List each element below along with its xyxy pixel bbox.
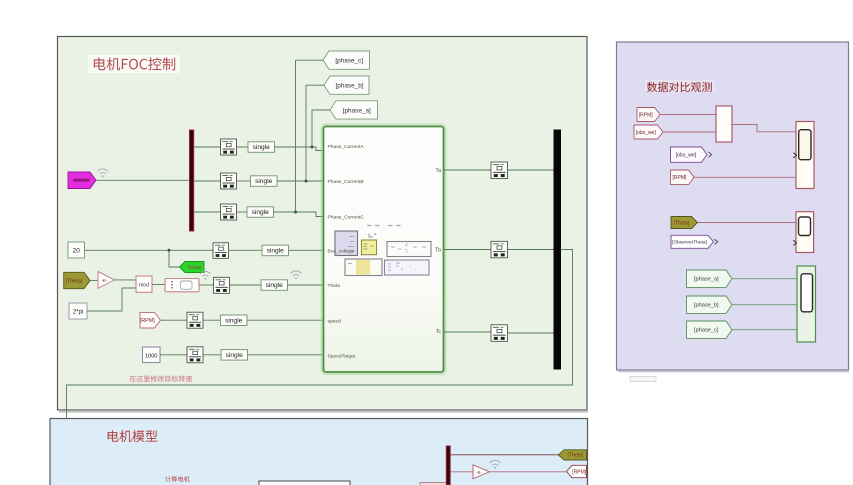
wire bus to conv A xyxy=(194,146,221,148)
annotation: 数据对比观测 title xyxy=(645,80,715,93)
svg-text:single: single xyxy=(253,144,271,151)
svg-text:[RPM]: [RPM] xyxy=(140,318,155,324)
data type conversion block speed xyxy=(187,312,203,328)
wire Tb to conv xyxy=(444,249,492,251)
wire phase_a to scope3 xyxy=(732,278,797,280)
motor block (cut off) xyxy=(259,481,350,485)
svg-text:[phase_b]: [phase_b] xyxy=(694,303,719,309)
constant block 20 xyxy=(68,242,85,258)
svg-text:[phase_c]: [phase_c] xyxy=(335,57,363,64)
wire single C to Phase_CurrentC port xyxy=(274,212,324,217)
block edge (cut off, pink) xyxy=(420,483,448,485)
From tag Theta (obs panel) xyxy=(671,217,698,229)
Norm data type conversion block xyxy=(213,243,229,258)
wire phase_a tag branch xyxy=(312,110,330,147)
svg-text:[RPM]: [RPM] xyxy=(639,112,654,118)
svg-text:[obs_we]: [obs_we] xyxy=(676,153,697,159)
Goto tag N-bus (green) xyxy=(180,262,205,273)
single block Bus_voltage xyxy=(262,245,289,256)
wire phase_b to scope3 xyxy=(732,304,797,306)
From tag Iabc (magenta) xyxy=(68,172,96,189)
scope1 input arrow xyxy=(793,153,796,158)
panel: 电机FOC控制 area xyxy=(58,37,588,411)
wire RPM to mux3 xyxy=(660,114,716,116)
gain block -K- xyxy=(98,272,115,289)
wire bus2 to gain2 xyxy=(450,471,473,473)
svg-text:SpeedTarget: SpeedTarget xyxy=(328,354,356,360)
data type conversion block Tb xyxy=(491,241,508,257)
svg-text:[RPM]: [RPM] xyxy=(572,469,587,475)
wire obs_we to mux3 xyxy=(663,131,716,133)
svg-text:[Theta]: [Theta] xyxy=(673,220,689,226)
Goto tag phase_b xyxy=(324,76,369,94)
svg-text:-K-: -K- xyxy=(476,470,482,475)
junction phase_c tap xyxy=(294,211,297,214)
wire Theta tag to gain xyxy=(90,280,98,282)
wire single to Theta port xyxy=(288,284,324,286)
junction N-bus tap xyxy=(168,249,171,252)
From tag RPM xyxy=(140,312,161,328)
data type conversion block SpeedTarget xyxy=(187,347,203,363)
wire bus to conv C xyxy=(194,211,221,213)
scope block 1 (speed) xyxy=(796,122,814,189)
wire conv Theta to single xyxy=(230,284,262,286)
From tag Theta (olive) xyxy=(64,272,90,288)
subsystem: FOC controller xyxy=(322,125,445,374)
wire phase_b tag branch xyxy=(306,85,324,181)
data type conversion block C xyxy=(221,204,237,220)
svg-text:Ta: Ta xyxy=(436,168,442,174)
svg-text:1000: 1000 xyxy=(145,353,157,359)
svg-text:Phase_CurrentC: Phase_CurrentC xyxy=(328,214,365,220)
data type conversion block A xyxy=(221,139,237,155)
wire 1000 to conv xyxy=(160,354,187,356)
wire single B to Phase_CurrentB port xyxy=(277,180,323,182)
svg-text:single: single xyxy=(226,352,244,359)
svg-text:Bus_voltage: Bus_voltage xyxy=(328,248,355,254)
svg-text:[Theta]: [Theta] xyxy=(568,453,584,459)
mux bus bar (black) xyxy=(554,130,562,370)
wire conv to single SpeedTarget xyxy=(203,354,221,356)
data type conversion block Theta xyxy=(214,277,230,293)
From tag phase_b (obs) xyxy=(687,296,733,313)
wire Ta to conv xyxy=(444,169,492,171)
svg-text:single: single xyxy=(252,209,270,216)
wire conv Ta to mux bus xyxy=(508,169,554,171)
wire single to speed port xyxy=(247,319,323,321)
panel: 数据对比观测 area xyxy=(617,42,849,370)
annotation box below panel xyxy=(630,377,656,382)
wire RPM2 to scope1 xyxy=(694,176,796,178)
svg-text:-K-: -K- xyxy=(101,278,108,283)
junction phase_b tap xyxy=(305,180,308,183)
wire gain to mod in1 xyxy=(115,279,137,281)
mod block xyxy=(136,276,152,292)
wire gain2 to RPM goto xyxy=(490,471,567,473)
single block C xyxy=(247,207,274,218)
wire RPM tag to conv xyxy=(161,319,188,321)
gain block -K- (bottom) xyxy=(473,465,490,479)
wire mux output to motor model xyxy=(67,250,573,485)
wire conv to single speed xyxy=(203,319,221,321)
svg-text:2*pi: 2*pi xyxy=(73,310,83,316)
svg-text:[obs_we]: [obs_we] xyxy=(636,130,657,136)
wire 2*pi to mod in2 xyxy=(87,288,136,311)
subsystem preview thumbnails xyxy=(335,225,431,276)
signal logging badge theta 1 xyxy=(200,271,211,279)
svg-text:Tb: Tb xyxy=(435,248,441,254)
From tag obs_we 2 xyxy=(671,147,708,162)
scope2 input arrow xyxy=(793,240,796,245)
svg-text:mod: mod xyxy=(139,283,149,289)
wire Iabc to demux bus xyxy=(96,179,190,181)
Goto tag RPM (bottom) xyxy=(567,465,587,477)
data type conversion block B xyxy=(221,173,237,189)
svg-text:[phase_a]: [phase_a] xyxy=(694,277,719,283)
wire conv Tc to mux bus xyxy=(508,332,554,334)
constant block 1000 xyxy=(143,347,161,363)
svg-text:Theta: Theta xyxy=(328,283,341,289)
demux bus bar (dark red) xyxy=(190,130,194,231)
wire single to SpeedTarget port xyxy=(248,354,324,356)
constant block 2*pi xyxy=(69,303,87,319)
junction phase_a tap xyxy=(311,146,314,149)
single block B xyxy=(251,176,278,187)
wire conv B to single B xyxy=(237,180,251,182)
wire Theta to scope2 xyxy=(698,222,797,224)
Goto tag Theta (olive, bottom) xyxy=(558,450,586,460)
single block A xyxy=(248,142,275,153)
wire Tc to conv xyxy=(444,332,492,333)
wire phase_c tag branch xyxy=(296,60,324,212)
svg-text:20: 20 xyxy=(73,248,81,255)
svg-text:[Theta]: [Theta] xyxy=(65,278,82,284)
wire mux3 to scope1 xyxy=(732,125,796,132)
Goto tag phase_c xyxy=(323,51,370,69)
mux block (speed compare) xyxy=(716,106,732,142)
svg-text:single: single xyxy=(225,317,243,324)
svg-text:single: single xyxy=(266,282,284,289)
wire conv Tb to mux bus xyxy=(508,249,554,251)
wire bus2 to Theta goto xyxy=(450,454,558,456)
single block speed xyxy=(221,315,248,326)
demux bus bar 2 (dark red) xyxy=(446,446,450,485)
annotation: 电机FOC控制 title xyxy=(88,55,180,73)
From tag ObserverTheta xyxy=(671,235,714,248)
svg-text:[RPM]: [RPM] xyxy=(673,175,688,181)
wire 20 to Norm conv xyxy=(85,249,214,251)
signal logging badge bottom xyxy=(490,460,501,468)
From tag phase_c (obs) xyxy=(687,321,733,338)
wire bus to conv B xyxy=(194,180,221,182)
wire conv C to single C xyxy=(237,211,248,213)
svg-text:Phase_CurrentB: Phase_CurrentB xyxy=(328,179,364,185)
svg-text:Phase_CurrentA: Phase_CurrentA xyxy=(328,144,365,150)
wire Norm conv to single xyxy=(229,249,263,251)
annotation: 电机模型 title xyxy=(108,430,158,442)
svg-text:single: single xyxy=(255,178,273,185)
scope block 2 (theta) xyxy=(796,212,814,253)
svg-text:N-bus: N-bus xyxy=(188,265,202,271)
annotation: 计算电机 (red) xyxy=(165,476,189,482)
Goto tag phase_a xyxy=(330,101,378,119)
signal logging badge on Iabc wire xyxy=(97,169,108,177)
data type conversion block Tc xyxy=(491,325,508,342)
From tag RPM (obs panel) xyxy=(637,108,660,122)
annotation: 在这里修改目标转速 (pink) xyxy=(130,375,192,382)
svg-text:speed: speed xyxy=(328,318,342,324)
single block Theta xyxy=(261,280,288,291)
svg-text:[phase_c]: [phase_c] xyxy=(694,328,719,334)
signal viewer block xyxy=(165,279,199,292)
open arrow ObserverTheta xyxy=(715,239,718,244)
From tag obs_we (to mux) xyxy=(634,125,663,139)
data type conversion block Ta xyxy=(491,162,508,179)
From tag RPM 2 xyxy=(671,170,695,185)
svg-text:[ObserverTheta]: [ObserverTheta] xyxy=(672,240,707,246)
svg-text:[phase_b]: [phase_b] xyxy=(335,82,363,89)
panel: 电机模型 area xyxy=(50,419,588,485)
wire branch to N-bus tag xyxy=(169,250,180,267)
svg-text:single: single xyxy=(267,248,285,255)
From tag phase_a (obs) xyxy=(687,270,733,287)
open arrow obs_we xyxy=(709,152,712,157)
single block SpeedTarget xyxy=(221,350,248,361)
wire mod to viewer block xyxy=(152,284,165,286)
wire single to Bus_voltage port xyxy=(289,249,324,251)
wire phase_c to scope3 xyxy=(732,329,797,331)
wire conv A to single A xyxy=(237,146,249,148)
wire single A to Phase_CurrentA port xyxy=(275,147,324,151)
signal logging badge theta 2 xyxy=(291,271,302,279)
wire viewer to conv Theta xyxy=(199,284,214,286)
svg-text:Tc: Tc xyxy=(436,329,442,335)
svg-text:[phase_a]: [phase_a] xyxy=(343,107,371,114)
scope block 3 (currents, green) xyxy=(797,266,816,342)
